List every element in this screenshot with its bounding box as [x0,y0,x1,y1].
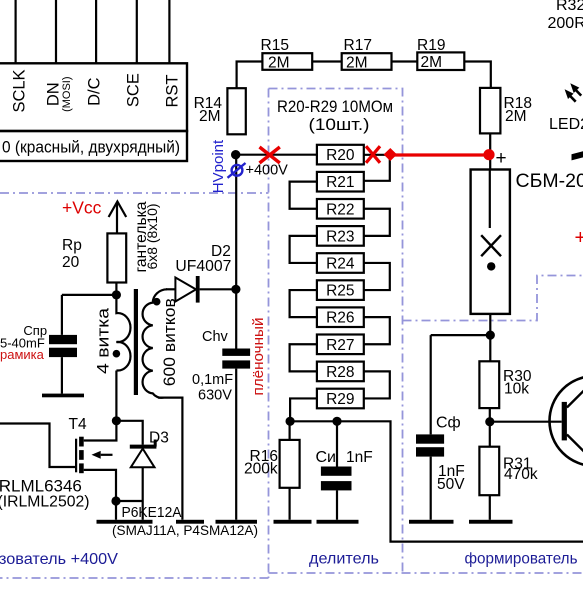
node R30/R31 base [485,417,494,426]
svg-text:SCLK: SCLK [10,69,28,112]
ground R31 [469,520,513,524]
wire: Rp bottom to node [115,283,117,295]
wire: Cu leads [336,421,338,520]
resistor R21 [317,172,364,192]
svg-text:Chv: Chv [202,329,229,345]
svg-text:R23: R23 [326,228,354,245]
svg-text:(MOSI): (MOSI) [61,76,73,111]
resistor R25 [317,280,364,300]
svg-text:2M: 2M [346,54,368,71]
svg-text:R28: R28 [326,364,354,381]
transformer secondary winding (600 vitkov) [143,289,167,397]
Geiger tube SBM-20 body [471,170,510,314]
svg-text:UF4007: UF4007 [175,258,231,275]
svg-text:R26: R26 [326,310,354,327]
svg-text:2M: 2M [505,108,527,125]
wire: R30 bottom to R31 top [489,408,491,447]
wire: R26-R27 right link [364,317,390,344]
wire: D2 cathode to HV rail node [200,288,237,290]
svg-text:D/C: D/C [85,77,103,106]
resistor R19 [417,52,464,70]
svg-text:10k: 10k [504,380,529,397]
svg-text:+Vcc: +Vcc [62,198,102,218]
diode D2 UF4007 [175,278,196,302]
wire: tube cathode to node [489,314,491,361]
diode D3 triangle [131,449,155,468]
diode D3 (TVS) cathode bar with ticks [130,445,157,449]
display connector box (Nokia 5110) [0,63,187,131]
svg-text:Сф: Сф [436,415,461,432]
wire: R18 bottom to tube anode [489,133,491,169]
red X cut mark right of R20 [366,146,380,163]
wire: HV rail vertical upper (node to Chv top) [235,155,237,349]
wire: divider output bus to right edge [290,421,583,541]
svg-text:R29: R29 [326,391,354,408]
tube X mark [481,235,501,256]
capacitor Cf plates [416,434,444,443]
svg-text:R15: R15 [261,37,289,54]
tube dot [487,262,495,270]
capacitor Cpr plates [49,335,77,344]
svg-text:470k: 470k [504,466,538,483]
transistor T4 body arrow [92,451,101,459]
svg-text:R20-R29 10МОм: R20-R29 10МОм [277,98,393,116]
svg-text:50V: 50V [437,476,465,493]
wire: Chv bottom to ground [235,369,237,520]
ground T4/D3 [97,520,153,524]
svg-text:2M: 2M [199,108,221,125]
svg-text:R21: R21 [326,174,354,191]
svg-text:+: + [575,227,583,249]
wire: R27-R28 left link [290,344,317,371]
resistor R18 [480,88,500,133]
wire: R21 right up to red node [364,158,390,181]
wire: primary bottom to T4 drain corner [84,371,117,441]
wire: node to Cpr [62,294,117,296]
svg-text:P6KE12A: P6KE12A [122,505,182,521]
wire: +Vcc arrow stem to Rp [116,203,118,233]
transformer core [134,289,138,395]
svg-text:(SMAJ11A, P4SMA12A): (SMAJ11A, P4SMA12A) [112,522,258,538]
wire: Cf leads [430,335,432,520]
wire: R22-R23 right link [364,209,390,236]
wire: T4 source [84,470,116,520]
wire: R15 to R17 [312,60,342,62]
svg-text:1nF: 1nF [346,449,373,466]
resistor R27 [317,335,364,355]
transistor Q1 base bar [562,402,567,441]
svg-text:формирователь: формирователь [465,551,578,568]
wire: R21-R22 left link [290,182,317,209]
svg-text:4 витка: 4 витка [95,307,113,374]
red dot at tube anode [483,149,494,160]
svg-text:R22: R22 [326,201,354,218]
wire: R20 right to red node [364,154,390,156]
node Rp bottom [112,290,121,299]
wire: R24-R25 right link [364,263,390,290]
transistor Q1 circle [550,376,583,466]
wire: secondary top to D2 anode [166,288,175,290]
svg-text:LED2: LED2 [549,116,583,133]
resistor R15 [262,53,312,70]
svg-text:делитель: делитель [309,551,379,568]
ground Chv [216,520,258,524]
ground Cpr [42,394,84,398]
ground R16 [274,520,312,524]
resistor R29 [317,389,364,409]
node R14 bottom [231,150,240,159]
transistor T4 channel bars [79,437,84,447]
node bus Cu [332,417,341,426]
resistor R26 [317,307,364,327]
primary polarity dot [113,350,121,358]
wire: R14 bottom to R20 left (divider input) [236,154,317,156]
wire: D3 top link [116,421,142,445]
tube anode electrode [489,170,491,229]
svg-text:6x8 (8x10): 6x8 (8x10) [144,204,160,270]
resistor R30 [479,361,499,408]
node T4 source [111,496,120,505]
svg-text:20: 20 [62,254,80,271]
resistor R28 [317,362,364,382]
node T4 drain [112,416,121,425]
svg-text:+400V: +400V [246,163,289,179]
wire: T4 gate lead to left edge [0,424,77,468]
probe point marker (blue) at +400V [232,165,243,176]
transistor Q1 collector/emitter [567,378,583,465]
svg-text:SCE: SCE [124,73,142,107]
wire: R19 to R18 top [464,62,491,88]
svg-text:T4: T4 [69,416,87,433]
wire: Cpr leads [61,295,63,394]
resistor R14 [227,88,245,134]
svg-text:R24: R24 [326,256,355,273]
svg-text:RST: RST [163,75,181,108]
svg-text:HVpoint: HVpoint [210,139,227,193]
resistor Rp [107,233,126,282]
svg-text:2M: 2M [421,54,443,71]
svg-text:200k: 200k [244,460,278,477]
resistor R22 [317,199,364,219]
resistor R31 [479,447,499,496]
svg-text:R19: R19 [417,37,445,54]
LED2 cathode bar (minus) [572,151,583,160]
svg-text:рамика: рамика [0,347,45,362]
display connector caption box [0,131,187,161]
block box: формирователь (dash-dot outline) [403,276,583,321]
svg-text:R20: R20 [326,147,355,164]
block box: преобразователь +400V (dash-dot outline) [0,89,269,579]
capacitor Chv plates [222,349,250,356]
svg-text:200R: 200R [548,15,583,32]
wire: R31 bottom to ground [489,495,491,520]
svg-text:+: + [496,148,507,169]
secondary polarity dot [153,298,161,306]
wire: R29 left to divider output bus [290,398,317,421]
svg-text:D3: D3 [149,430,169,447]
svg-text:600 витков: 600 витков [161,298,179,386]
wire: display connector pin leads (5 verticals to top edge) [16,0,170,63]
resistor R23 [317,226,364,246]
svg-text:630V: 630V [198,388,232,404]
svg-text:0,1mF: 0,1mF [192,372,233,388]
wire: R28-R29 right link [364,371,390,398]
svg-text:2M: 2M [268,54,290,71]
resistor R17 [342,53,392,70]
wire: R17 to R19 [392,60,418,62]
wire: secondary bottom to ground [158,398,182,520]
resistor R16 [280,440,300,488]
node bus R16 [286,417,295,426]
ground Cf [409,520,454,524]
red jumper wire to tube anode [390,153,489,156]
svg-text:Си: Си [316,449,337,466]
svg-text:СБМ-20: СБМ-20 [516,170,583,192]
wire: R14 top to R15 [237,62,263,89]
wire: node to Cf top [431,334,491,336]
svg-text:(IRLML2502): (IRLML2502) [0,494,90,511]
transistor T4 gate line [75,439,77,473]
wire: D3 bottom to ground [142,467,144,520]
svg-text:плёночный: плёночный [250,318,267,396]
svg-text:R27: R27 [326,337,354,354]
block box: делитель (dash-dot outline) [269,89,583,574]
red X cut mark left of R20 [260,147,280,163]
svg-text:зователь +400V: зователь +400V [0,551,118,568]
node tube cathode [486,331,495,340]
ground secondary [176,520,204,524]
svg-text:0 (красный, двухрядный): 0 (красный, двухрядный) [2,138,180,157]
transformer primary winding (4 vitka) [116,295,130,371]
resistor R20 [317,145,364,165]
wire: base wire to transistor [490,421,562,423]
+Vcc arrow head [109,202,127,218]
wire: R16 leads [289,421,291,520]
svg-text:R32: R32 [556,0,583,14]
red node at divider input [384,148,397,161]
svg-text:R25: R25 [326,283,354,300]
wire: R23-R24 left link [290,236,317,263]
LED2 arrows [570,90,581,102]
node D2 cathode / HV rail [231,285,240,294]
wire: source-D3 bottom link [116,500,143,502]
svg-text:(10шт.): (10шт.) [309,116,370,134]
svg-text:R17: R17 [344,37,372,54]
wire: R25-R26 left link [290,290,317,317]
capacitor Cu plates [321,467,352,476]
svg-text:Rp: Rp [62,237,82,254]
resistor R24 [317,253,364,273]
ground Cu [317,520,359,524]
